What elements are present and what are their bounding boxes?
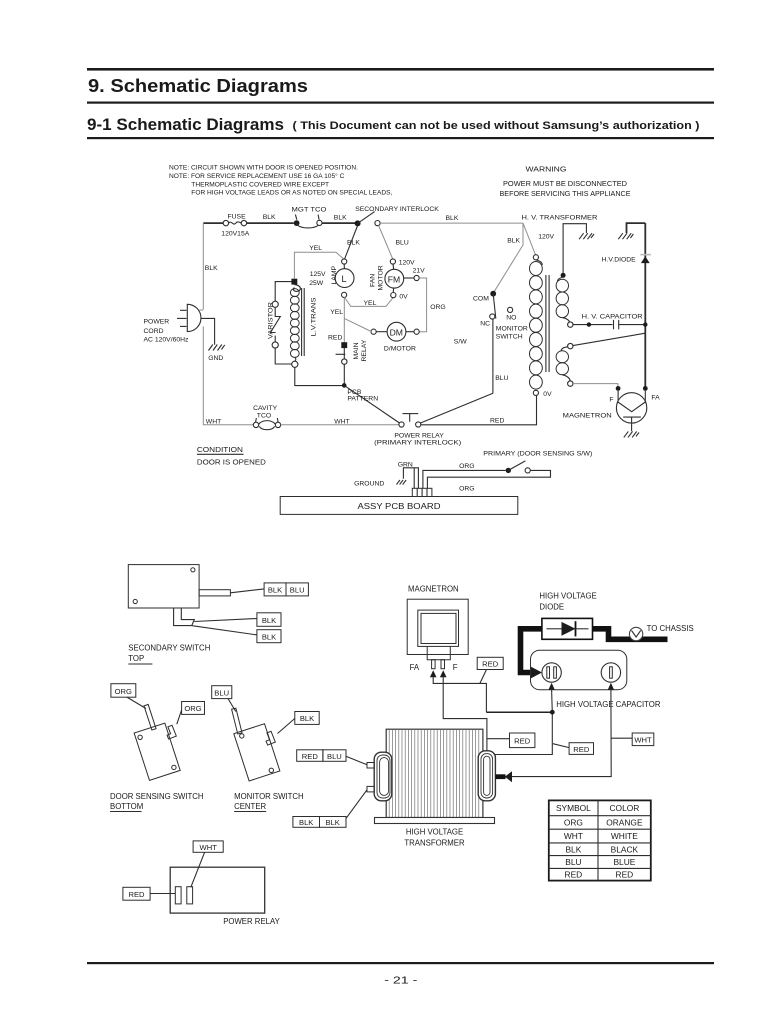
svg-text:CENTER: CENTER [234, 802, 266, 811]
svg-text:HIGH VOLTAGE CAPACITOR: HIGH VOLTAGE CAPACITOR [556, 700, 661, 709]
wire plug middle prong to GND [201, 318, 215, 344]
svg-text:SWITCH: SWITCH [496, 333, 523, 340]
wire FA lead with arrow [430, 670, 551, 712]
svg-text:AC 120V/60Hz: AC 120V/60Hz [144, 337, 190, 344]
relay contact POWER RELAY (primary interlock) [374, 414, 461, 447]
svg-text:SECONDARY INTERLOCK: SECONDARY INTERLOCK [355, 206, 439, 213]
svg-text:BLK: BLK [565, 844, 581, 854]
svg-text:H. V. CAPACITOR: H. V. CAPACITOR [582, 313, 643, 320]
wire BLK left drop to power cord [203, 223, 218, 309]
svg-text:WARNING: WARNING [526, 167, 567, 174]
wire WHT left drop to bottom line [203, 326, 253, 425]
svg-text:BLU: BLU [327, 752, 342, 761]
header rule mid [87, 102, 714, 104]
wire PCB pattern diagonal to power relay [344, 385, 399, 423]
svg-text:FM: FM [388, 274, 400, 284]
wire filament top to H.V. line [573, 333, 645, 345]
svg-text:SYMBOL: SYMBOL [556, 803, 591, 813]
svg-text:YEL: YEL [330, 309, 343, 316]
svg-text:RED: RED [616, 869, 634, 879]
svg-text:RED: RED [490, 417, 504, 424]
magnetron MAGNETRON [563, 386, 660, 431]
svg-text:NOTE: CIRCUIT SHOWN WITH DOOR: NOTE: CIRCUIT SHOWN WITH DOOR IS OPENED … [169, 165, 358, 172]
svg-text:25W: 25W [309, 280, 324, 287]
ground magnetron earth [624, 431, 639, 437]
svg-text:BLK: BLK [262, 632, 276, 641]
diode H.V.DIODE [602, 255, 651, 264]
svg-text:GND: GND [208, 355, 223, 362]
terminal secondary switch bottom leads [174, 608, 195, 626]
svg-text:BLU: BLU [290, 586, 305, 595]
ground GND (power cord earth) [208, 345, 225, 362]
svg-text:GROUND: GROUND [354, 480, 384, 487]
svg-text:FOR HIGH VOLTAGE LEADS OR AS N: FOR HIGH VOLTAGE LEADS OR AS NOTED ON SP… [191, 190, 392, 197]
svg-text:BLACK: BLACK [611, 844, 639, 854]
svg-text:CONDITION: CONDITION [197, 445, 243, 454]
node YEL junction (L.V. trans top, varistor, lamp feed) [291, 279, 297, 285]
svg-text:BEFORE SERVICING THIS APPLIANC: BEFORE SERVICING THIS APPLIANCE [500, 191, 631, 198]
door sensing switch bottom pictorial [134, 704, 180, 780]
lamp L 125V 25W [309, 259, 354, 298]
wire L.V.trans bottom to PCB pattern [295, 367, 342, 385]
transformer base plate [375, 818, 495, 824]
diode body box [542, 618, 593, 639]
svg-text:ORG: ORG [459, 486, 474, 493]
wire BLK between MGT TCO and secondary interlock [322, 215, 355, 224]
node junction dot capacitor/FA [550, 710, 555, 715]
svg-text:H. V. TRANSFORMER: H. V. TRANSFORMER [522, 214, 598, 221]
svg-text:BLK: BLK [205, 265, 218, 272]
svg-text:BLK: BLK [334, 215, 347, 222]
svg-text:CAVITY: CAVITY [253, 405, 278, 412]
door motor DM D/MOTOR [371, 322, 419, 352]
svg-text:COLOR: COLOR [610, 803, 640, 813]
svg-text:120V: 120V [399, 260, 415, 267]
svg-text:TRANSFORMER: TRANSFORMER [404, 838, 465, 847]
label box WHT (relay) [191, 841, 223, 887]
svg-text:L: L [342, 274, 347, 284]
thermal cutout MGT TCO [292, 206, 327, 228]
wire BLU monitor switch to power relay [421, 393, 493, 423]
svg-text:LAMP: LAMP [331, 266, 338, 285]
label HIGH VOLTAGE TRANSFORMER [404, 828, 465, 848]
transformer filament winding [556, 343, 573, 386]
label box RED (magnetron) [477, 657, 503, 683]
relay MAIN RELAY [328, 335, 368, 365]
svg-text:MOTOR: MOTOR [377, 265, 384, 290]
secondary switch top body [128, 565, 230, 608]
svg-text:WHT: WHT [334, 419, 349, 426]
svg-text:D/MOTOR: D/MOTOR [384, 345, 416, 352]
wire GRN to chassis ground [398, 461, 419, 488]
svg-text:COM: COM [473, 295, 489, 302]
switch secondary interlock [355, 206, 440, 227]
high voltage capacitor pictorial [531, 650, 661, 709]
thermal cutout CAVITY TCO [253, 405, 281, 430]
svg-text:WHT: WHT [206, 418, 221, 425]
wire main relay to PCB pattern node [343, 364, 345, 385]
ground earth symbol 2 [618, 233, 633, 239]
svg-text:YEL: YEL [364, 300, 377, 307]
wire secondary top to earth [563, 224, 586, 273]
svg-text:POWER RELAY: POWER RELAY [223, 917, 280, 926]
svg-text:BLU: BLU [214, 688, 229, 697]
header rule top [87, 68, 714, 71]
transformer core [546, 275, 549, 372]
svg-text:MONITOR: MONITOR [496, 325, 528, 332]
wire F filament bottom to magnetron [573, 384, 618, 386]
transformer laminations [389, 729, 479, 817]
high voltage transformer pictorial core [386, 729, 483, 817]
label box WHT (capacitor) [611, 733, 654, 746]
wire ORG return to PCB [427, 470, 550, 492]
svg-text:DIODE: DIODE [539, 603, 564, 612]
svg-text:ORG: ORG [430, 304, 445, 311]
svg-text:H.V.DIODE: H.V.DIODE [602, 257, 637, 264]
node PCB PATTERN junction [342, 383, 378, 403]
svg-text:FAN: FAN [370, 274, 377, 287]
wire BLK main line to H.V. transformer [380, 215, 523, 223]
svg-text:BLK: BLK [262, 616, 276, 625]
thick bus diode right leg to chassis [593, 629, 668, 640]
svg-text:YEL: YEL [309, 245, 322, 252]
fuse FUSE 120V15A [221, 213, 249, 237]
svg-text:WHT: WHT [200, 843, 218, 852]
svg-text:BLK: BLK [300, 714, 314, 723]
ground earth symbol 1 [579, 233, 594, 239]
svg-text:ORG: ORG [184, 704, 201, 713]
svg-text:SECONDARY SWITCH: SECONDARY SWITCH [128, 644, 210, 653]
wire BLU secondary interlock to fan motor [379, 226, 409, 259]
terminal transformer right stub with arrow [496, 771, 513, 782]
svg-text:9-1 Schematic Diagrams: 9-1 Schematic Diagrams [87, 116, 284, 134]
monitor switch center pictorial [232, 708, 280, 781]
svg-text:THERMOPLASTIC COVERED WIRE EXC: THERMOPLASTIC COVERED WIRE EXCEPT [191, 181, 329, 188]
label box RED 1 (transformer) [487, 733, 535, 748]
condition note CONDITION / DOOR IS OPENED [197, 445, 267, 467]
screw to chassis symbol [629, 624, 693, 641]
label box BLU (secondary switch) [286, 583, 308, 596]
svg-text:MAIN: MAIN [353, 342, 360, 359]
svg-text:DOOR SENSING SWITCH: DOOR SENSING SWITCH [110, 792, 204, 801]
wire BLU monitor switch NC down [493, 319, 509, 393]
label SECONDARY SWITCH TOP [128, 644, 210, 664]
header rule bottom [87, 137, 714, 139]
board ASSY PCB BOARD [280, 497, 518, 515]
svg-text:WHITE: WHITE [611, 831, 638, 841]
svg-text:(PRIMARY INTERLOCK): (PRIMARY INTERLOCK) [374, 440, 461, 447]
label DOOR SENSING SWITCH BOTTOM [110, 792, 204, 812]
label box RED/BLU pair [297, 750, 367, 765]
wire to H.V. transformer 120V input [523, 223, 555, 255]
svg-text:F: F [609, 396, 613, 403]
thick bus diode left leg with arrow [521, 629, 543, 678]
svg-text:BLK: BLK [326, 818, 340, 827]
svg-text:RED: RED [573, 745, 590, 754]
wire YEL lamp bottom to fan motor 0V [345, 297, 394, 306]
svg-text:BLU: BLU [396, 239, 409, 246]
svg-text:120V: 120V [538, 233, 554, 240]
svg-text:L.V.TRANS: L.V.TRANS [311, 297, 318, 337]
capacitor H. V. CAPACITOR [573, 313, 648, 329]
svg-text:RED: RED [482, 660, 499, 669]
wire to BLK box 2 [191, 626, 257, 635]
svg-text:- 21 -: - 21 - [384, 976, 417, 987]
label box RED (relay) [123, 887, 175, 900]
svg-text:FA: FA [410, 663, 420, 672]
svg-text:MAGNETRON: MAGNETRON [563, 412, 612, 419]
label box ORG 2 [177, 702, 205, 725]
power relay pictorial [170, 867, 280, 926]
svg-text:MGT TCO: MGT TCO [292, 206, 327, 213]
color table SYMBOL/COLOR [549, 800, 651, 880]
fan motor FM [370, 259, 415, 301]
wire H.V. line top to earth [627, 223, 646, 233]
svg-text:RELAY: RELAY [361, 339, 368, 361]
svg-text:HIGH VOLTAGE: HIGH VOLTAGE [406, 828, 463, 837]
label box BLK 2 [257, 630, 281, 643]
svg-text:ORG: ORG [115, 687, 132, 696]
svg-text:ORG: ORG [564, 817, 583, 827]
svg-text:POWER MUST BE DISCONNECTED: POWER MUST BE DISCONNECTED [503, 181, 627, 188]
svg-text:BOTTOM: BOTTOM [110, 802, 143, 811]
svg-text:TCO: TCO [257, 412, 271, 419]
svg-text:21V: 21V [413, 267, 426, 274]
wire capacitor left terminal down [549, 683, 555, 712]
svg-text:RED: RED [302, 752, 319, 761]
svg-text:9. Schematic Diagrams: 9. Schematic Diagrams [88, 76, 308, 96]
svg-text:BLU: BLU [495, 375, 508, 382]
wire secondary switch lead to BLK/BLU [230, 589, 264, 593]
svg-text:BLK: BLK [347, 239, 360, 246]
svg-text:VARISTOR: VARISTOR [268, 302, 275, 339]
wire YEL lamp feed [294, 245, 344, 279]
wire ORG to door sensing switch [423, 463, 506, 488]
svg-text:BLU: BLU [565, 857, 581, 867]
svg-text:BLK: BLK [299, 818, 313, 827]
label box ORG 1 [111, 684, 146, 709]
inductor L.V.TRANS primary coil [290, 285, 317, 368]
wire to BLK box 1 [194, 619, 257, 622]
ground chassis ground small [354, 480, 406, 487]
wire ORG fan motor 21V to door motor [404, 267, 446, 331]
label box BLK (secondary switch) [264, 583, 286, 596]
high voltage diode pictorial [539, 592, 596, 612]
wire YEL to door motor diagonal [344, 318, 371, 331]
svg-text:0V: 0V [543, 391, 552, 398]
transformer left bobbin [374, 752, 392, 801]
svg-text:HIGH VOLTAGE: HIGH VOLTAGE [539, 592, 596, 601]
svg-text:120V15A: 120V15A [221, 230, 249, 237]
wire BLK to monitor switch COM [493, 223, 523, 293]
svg-text:S/W: S/W [454, 339, 467, 346]
wire F lead with arrow [440, 670, 552, 754]
switch door sensing S/W [506, 461, 531, 473]
connector PCB board connector [412, 468, 432, 497]
svg-text:DM: DM [390, 327, 403, 337]
footer rule [87, 962, 714, 964]
svg-text:WHT: WHT [634, 736, 652, 745]
svg-text:WHT: WHT [564, 831, 583, 841]
svg-text:BLK: BLK [446, 215, 459, 222]
svg-text:NO: NO [506, 315, 516, 322]
svg-text:RED: RED [328, 335, 342, 342]
svg-text:ORANGE: ORANGE [606, 817, 643, 827]
varistor VARISTOR [268, 282, 292, 364]
svg-text:TO CHASSIS: TO CHASSIS [647, 624, 694, 633]
label box BLK/BLK pair [293, 790, 367, 828]
svg-text:BLK: BLK [268, 586, 282, 595]
svg-text:RED: RED [514, 737, 531, 746]
svg-text:0V: 0V [399, 293, 408, 300]
magnetron pictorial [407, 585, 468, 672]
svg-text:MAGNETRON: MAGNETRON [408, 585, 459, 594]
svg-text:ASSY PCB BOARD: ASSY PCB BOARD [358, 501, 441, 511]
svg-text:DOOR IS OPENED: DOOR IS OPENED [197, 457, 267, 466]
label box BLK (monitor) [278, 712, 320, 734]
svg-text:NC: NC [480, 320, 490, 327]
wire WHT bottom line to power relay [281, 419, 399, 426]
svg-text:CORD: CORD [144, 328, 164, 335]
wire BLK secondary interlock to lamp [345, 226, 361, 260]
svg-text:PATTERN: PATTERN [347, 396, 378, 403]
switch MONITOR SWITCH [454, 291, 528, 346]
svg-text:125V: 125V [310, 271, 326, 278]
svg-text:POWER: POWER [144, 319, 170, 326]
svg-text:FUSE: FUSE [228, 213, 247, 220]
wire capacitor right terminal down [510, 683, 614, 777]
svg-text:MONITOR SWITCH: MONITOR SWITCH [234, 792, 304, 801]
svg-text:ORG: ORG [459, 463, 474, 470]
svg-text:PRIMARY (DOOR SENSING S/W): PRIMARY (DOOR SENSING S/W) [483, 450, 592, 457]
svg-text:BLK: BLK [263, 214, 276, 221]
terminal transformer left stubs [367, 763, 374, 792]
svg-text:F: F [453, 663, 458, 672]
transformer right bobbin [478, 751, 495, 801]
wire BLK between fuse and MGT TCO [247, 214, 294, 223]
svg-text:( This Document can not be use: ( This Document can not be used without … [293, 120, 700, 132]
svg-text:BLUE: BLUE [613, 857, 635, 867]
svg-text:RED: RED [565, 869, 583, 879]
wire YEL lamp bottom down to main relay [330, 297, 344, 342]
label box BLK 1 [257, 613, 281, 627]
transformer H. V. TRANSFORMER primary [522, 214, 598, 398]
label MONITOR SWITCH CENTER [234, 792, 304, 812]
label box BLU (monitor) [212, 686, 236, 712]
label box RED 2 (capacitor feed) [553, 743, 594, 755]
power cord plug symbol [144, 304, 204, 343]
svg-text:BLK: BLK [507, 238, 520, 245]
svg-text:NOTE: FOR SERVICE REPLACEMENT: NOTE: FOR SERVICE REPLACEMENT USE 16 GA … [169, 172, 345, 180]
wire BLK top main line left (fuse feed) [203, 222, 224, 224]
svg-text:FA: FA [651, 395, 660, 402]
wire RED power relay to transformer 0V [421, 396, 537, 425]
svg-text:RED: RED [128, 890, 145, 899]
wire H.V. vertical line (FA feed) [644, 223, 646, 387]
transformer secondary winding [556, 273, 573, 328]
svg-text:TOP: TOP [128, 654, 144, 663]
